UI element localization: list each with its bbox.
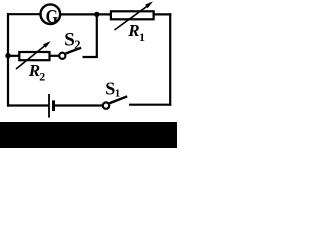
svg-text:1: 1 — [115, 88, 121, 100]
wire G to junction — [61, 13, 111, 15]
svg-text:R: R — [127, 21, 139, 40]
wire battery to S1 — [55, 104, 103, 106]
svg-text:R: R — [28, 61, 40, 80]
node junction top — [94, 12, 99, 17]
svg-text:2: 2 — [74, 38, 80, 52]
rheostat R1 — [111, 1, 154, 30]
wire top-left horizontal — [7, 13, 41, 15]
galvanometer G — [41, 4, 61, 27]
node junction left — [5, 53, 10, 58]
switch S2 — [59, 48, 81, 59]
wire junction down to S2 contact — [83, 14, 97, 57]
wire R2 to S2 — [50, 55, 60, 57]
wire bottom-left corner to battery — [7, 104, 49, 106]
svg-text:S: S — [64, 29, 75, 50]
wire left junction to R2 — [8, 55, 20, 57]
svg-text:G: G — [46, 5, 58, 27]
svg-text:1: 1 — [139, 30, 145, 44]
wire R1 to top-right corner — [154, 13, 172, 15]
wire left vertical — [7, 13, 9, 107]
wire right vertical — [169, 13, 171, 106]
wire S1 contact to bottom-right corner — [129, 104, 171, 106]
battery — [49, 94, 55, 118]
switch S1 — [103, 96, 127, 108]
black bar bottom — [0, 122, 177, 148]
svg-text:2: 2 — [39, 69, 45, 83]
rheostat R2 — [16, 41, 51, 69]
